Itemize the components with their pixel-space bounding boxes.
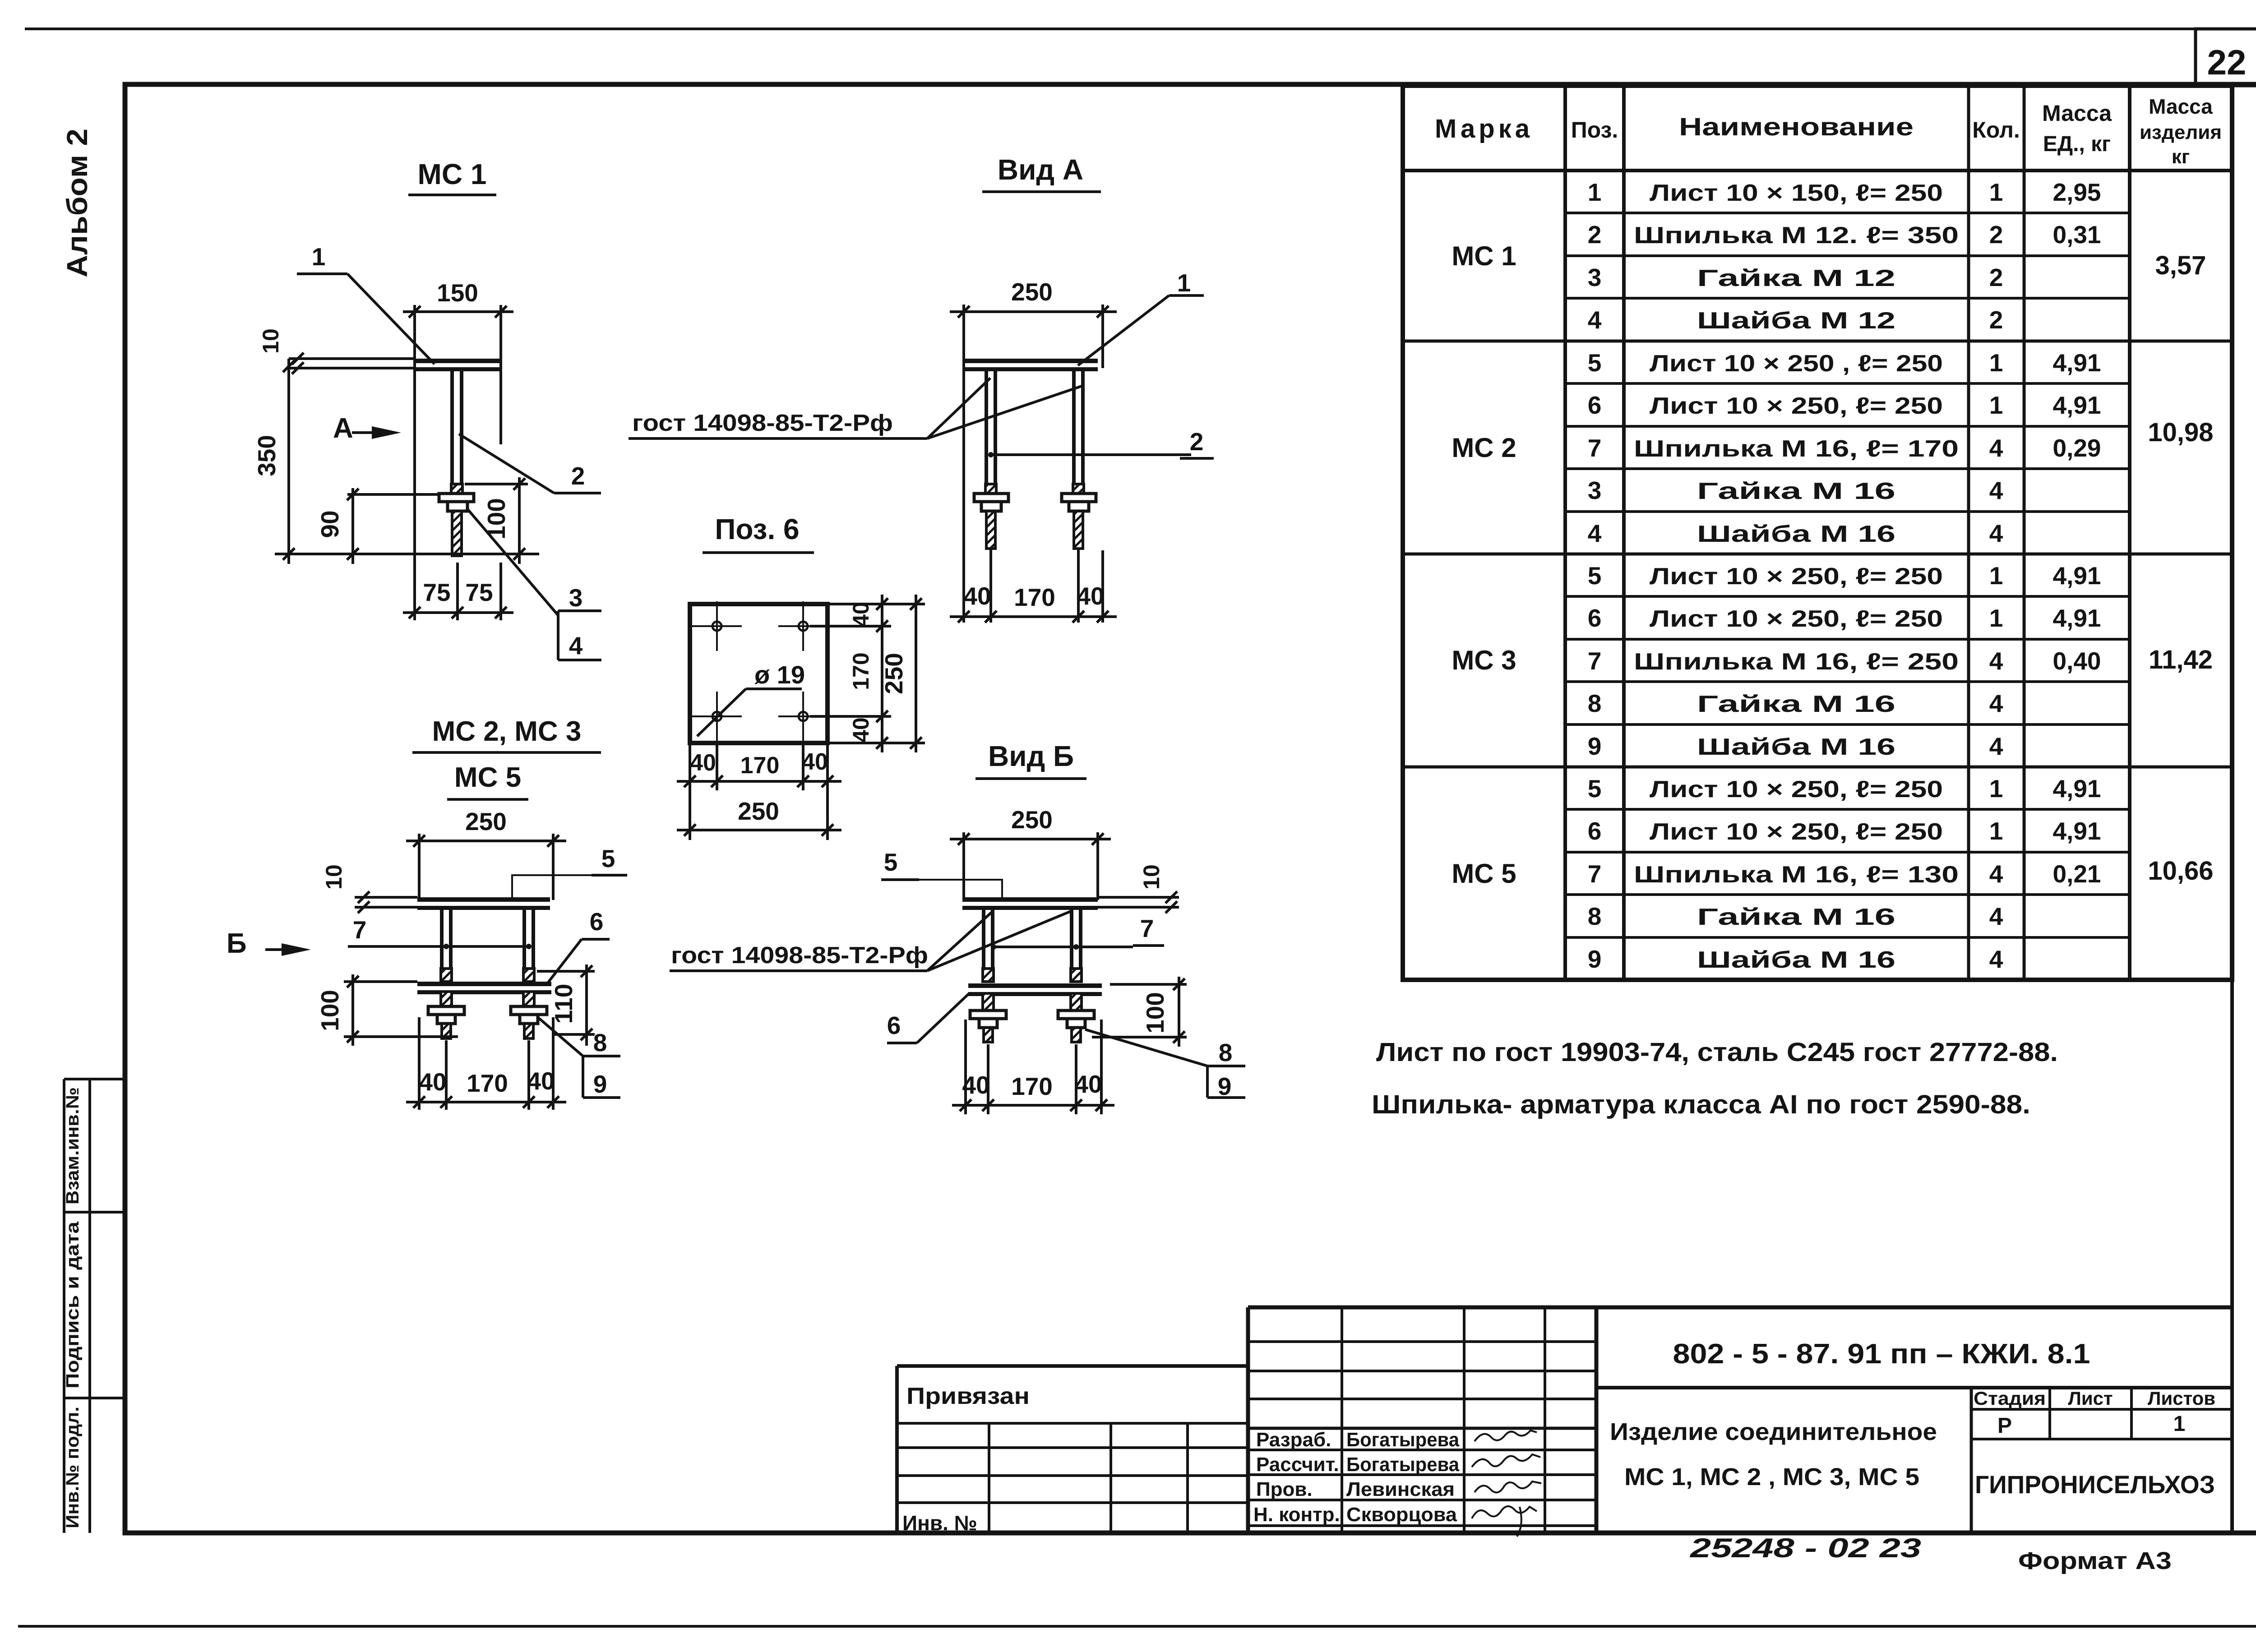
svg-text:Инв. №: Инв. №	[902, 1511, 977, 1535]
MC2 nuts poz.8	[437, 1015, 455, 1024]
Poz.6 bottom dims 40 170 40	[689, 745, 691, 840]
svg-text:Рассчит.: Рассчит.	[1256, 1454, 1339, 1476]
view A dim 250	[962, 305, 965, 623]
svg-text:1: 1	[1989, 817, 2003, 845]
svg-text:Гайка М 16: Гайка М 16	[1697, 691, 1895, 717]
svg-text:170: 170	[740, 752, 780, 779]
signature squiggles	[1475, 1431, 1537, 1441]
svg-text:4,91: 4,91	[2053, 349, 2101, 377]
svg-text:5: 5	[1588, 562, 1602, 590]
svg-text:Скворцова: Скворцова	[1346, 1504, 1457, 1526]
svg-text:гост 14098-85-Т2-Рф: гост 14098-85-Т2-Рф	[632, 410, 893, 436]
svg-text:350: 350	[253, 435, 281, 476]
svg-text:Шайба М 16: Шайба М 16	[1697, 947, 1895, 973]
view B washers poz.9	[970, 1011, 1006, 1019]
svg-text:Шпилька М 16, ℓ= 250: Шпилька М 16, ℓ= 250	[1634, 649, 1959, 675]
svg-text:изделия: изделия	[2140, 121, 2222, 143]
svg-text:МС 2, МС 3: МС 2, МС 3	[432, 716, 582, 747]
svg-text:Гайка М 12: Гайка М 12	[1697, 265, 1895, 291]
svg-text:8: 8	[1219, 1038, 1233, 1066]
view B top plate poz.5	[962, 897, 1098, 902]
svg-text:Пров.: Пров.	[1256, 1478, 1313, 1500]
svg-text:МС 1: МС 1	[418, 158, 487, 190]
svg-text:40: 40	[1077, 582, 1104, 610]
svg-text:8: 8	[1588, 689, 1602, 717]
svg-text:2: 2	[1588, 221, 1602, 249]
svg-text:9: 9	[1588, 945, 1602, 973]
svg-text:2: 2	[1989, 263, 2003, 291]
svg-text:4: 4	[1989, 476, 2003, 504]
svg-text:3: 3	[1588, 476, 1602, 504]
svg-text:Лист 10 × 250, ℓ= 250: Лист 10 × 250, ℓ= 250	[1650, 606, 1943, 632]
svg-text:Шайба М 12: Шайба М 12	[1697, 308, 1895, 334]
table header bottom line	[1403, 169, 2232, 172]
svg-text:2,95: 2,95	[2053, 178, 2101, 206]
view B rods below plate	[983, 993, 994, 1011]
svg-text:Шпилька М 16, ℓ= 170: Шпилька М 16, ℓ= 170	[1634, 436, 1959, 462]
svg-text:Лист 10 × 250, ℓ= 250: Лист 10 × 250, ℓ= 250	[1650, 563, 1943, 590]
svg-text:Масса: Масса	[2042, 101, 2112, 126]
svg-text:75: 75	[465, 578, 493, 606]
svg-text:Шпилька М 12. ℓ= 350: Шпилька М 12. ℓ= 350	[1634, 222, 1959, 249]
svg-text:5: 5	[1588, 775, 1602, 803]
view A dims 40 170 40	[989, 549, 992, 623]
MC1 nut poz.3	[448, 502, 467, 511]
svg-text:ГИПРОНИСЕЛЬХОЗ: ГИПРОНИСЕЛЬХОЗ	[1975, 1470, 2215, 1499]
svg-text:Альбом 2: Альбом 2	[61, 129, 93, 277]
svg-text:ø 19: ø 19	[754, 660, 805, 689]
svg-text:4: 4	[1588, 306, 1602, 334]
MC1 washer poz.4	[439, 494, 474, 502]
svg-text:0,21: 0,21	[2053, 860, 2101, 888]
svg-text:Вид Б: Вид Б	[988, 740, 1074, 772]
MC2 leader 8 9	[538, 1017, 583, 1056]
view A plate poz.1	[962, 359, 1098, 363]
svg-text:150: 150	[437, 279, 478, 307]
svg-text:40: 40	[963, 582, 991, 610]
svg-text:170: 170	[1014, 583, 1055, 611]
title block right section	[1595, 1307, 1599, 1533]
svg-text:5: 5	[601, 844, 615, 872]
svg-text:Шайба М 16: Шайба М 16	[1697, 521, 1895, 547]
svg-text:МС 1, МС 2 , МС 3, МС 5: МС 1, МС 2 , МС 3, МС 5	[1624, 1463, 1919, 1490]
svg-text:Шайба М 16: Шайба М 16	[1697, 734, 1895, 760]
MC2 bottom plate poz.6	[417, 982, 551, 986]
view B dim 100	[1178, 977, 1180, 1047]
svg-text:Формат А3: Формат А3	[2018, 1547, 2172, 1574]
svg-text:7: 7	[353, 916, 367, 944]
svg-text:4: 4	[569, 632, 583, 660]
svg-text:Богатырева: Богатырева	[1346, 1454, 1459, 1476]
view A nuts	[981, 502, 1001, 511]
svg-text:0,29: 0,29	[2053, 434, 2101, 462]
MC1 leader 3 4	[467, 508, 558, 615]
svg-text:Поз.: Поз.	[1571, 117, 1618, 143]
svg-text:Подпись и дата: Подпись и дата	[63, 1221, 83, 1389]
svg-text:Левинская: Левинская	[1346, 1478, 1455, 1500]
svg-text:6: 6	[590, 908, 604, 936]
svg-text:2: 2	[1190, 428, 1204, 456]
svg-text:4: 4	[1989, 860, 2003, 888]
svg-text:Гайка М 16: Гайка М 16	[1697, 904, 1895, 930]
svg-text:Поз. 6: Поз. 6	[715, 513, 799, 545]
MC1 plate poz.1	[415, 359, 501, 363]
view B nuts poz.8	[979, 1019, 997, 1028]
svg-text:8: 8	[593, 1029, 607, 1057]
MC1 dim 90	[351, 488, 354, 564]
MC2 washers poz.9	[428, 1006, 464, 1015]
svg-text:7: 7	[1588, 860, 1602, 888]
svg-text:Б: Б	[227, 928, 247, 959]
svg-text:40: 40	[1074, 1070, 1102, 1098]
svg-text:170: 170	[848, 652, 874, 690]
svg-text:Лист 10 × 250 , ℓ= 250: Лист 10 × 250 , ℓ= 250	[1650, 351, 1943, 377]
svg-text:90: 90	[316, 510, 344, 538]
svg-text:Лист 10 × 250, ℓ= 250: Лист 10 × 250, ℓ= 250	[1650, 776, 1943, 803]
svg-text:Лист 10 × 250, ℓ= 250: Лист 10 × 250, ℓ= 250	[1650, 393, 1943, 419]
svg-text:75: 75	[423, 578, 450, 606]
svg-text:40: 40	[848, 717, 874, 743]
svg-text:Лист 10 × 150, ℓ= 250: Лист 10 × 150, ℓ= 250	[1650, 180, 1943, 206]
MC1 dim 350	[287, 359, 290, 564]
svg-text:100: 100	[1141, 992, 1169, 1034]
svg-text:Лист по гост 19903-74, сталь С: Лист по гост 19903-74, сталь С245 гост 2…	[1376, 1038, 2058, 1067]
MC1 stud poz.2	[450, 368, 454, 484]
svg-text:10,66: 10,66	[2148, 856, 2213, 886]
svg-text:Изделие соединительное: Изделие соединительное	[1610, 1418, 1937, 1445]
svg-text:Марка: Марка	[1435, 114, 1533, 143]
svg-text:А: А	[333, 413, 353, 444]
svg-text:40: 40	[802, 749, 828, 775]
svg-text:Разраб.: Разраб.	[1256, 1429, 1331, 1451]
svg-text:3,57: 3,57	[2155, 251, 2206, 280]
svg-text:1: 1	[1989, 391, 2003, 419]
view B dim 250	[962, 832, 965, 900]
svg-text:1: 1	[1989, 349, 2003, 377]
svg-text:4: 4	[1588, 519, 1602, 547]
svg-text:Лист 10 × 250, ℓ= 250: Лист 10 × 250, ℓ= 250	[1650, 819, 1943, 845]
svg-text:9: 9	[1218, 1072, 1232, 1100]
svg-text:Вид А: Вид А	[998, 153, 1083, 186]
MC2 rods below plate	[441, 992, 452, 1006]
svg-text:6: 6	[887, 1011, 901, 1039]
view B dims 40 170 40	[964, 1020, 967, 1114]
svg-text:3: 3	[569, 584, 583, 612]
svg-text:1: 1	[312, 243, 326, 271]
MC2 dim 250	[418, 834, 421, 900]
Poz.6 right dims 40 170 40	[829, 603, 925, 605]
svg-text:3: 3	[1588, 263, 1602, 291]
svg-text:Шпилька- арматура класса АI: Шпилька- арматура класса АI по гост 2590…	[1372, 1090, 2030, 1119]
svg-text:1: 1	[1989, 775, 2003, 803]
MC1 threaded rod end	[452, 511, 462, 556]
svg-text:6: 6	[1588, 604, 1602, 632]
svg-text:7: 7	[1588, 434, 1602, 462]
svg-text:Масса: Масса	[2149, 95, 2213, 118]
svg-text:7: 7	[1588, 647, 1602, 675]
MC2 top plate poz.5	[417, 897, 550, 902]
svg-text:Богатырева: Богатырева	[1346, 1429, 1459, 1451]
table row lines	[1565, 212, 2130, 214]
svg-text:Гайка М 16: Гайка М 16	[1697, 478, 1895, 504]
svg-text:22: 22	[2207, 42, 2247, 82]
svg-text:7: 7	[1140, 914, 1154, 942]
svg-text:100: 100	[316, 990, 344, 1031]
svg-text:Привязан: Привязан	[906, 1383, 1030, 1409]
svg-text:4,91: 4,91	[2053, 604, 2101, 632]
svg-text:2: 2	[1989, 221, 2003, 249]
view A leader 2	[991, 453, 1191, 456]
Poz.6 plate outline	[690, 604, 828, 743]
svg-text:4,91: 4,91	[2053, 817, 2101, 845]
svg-text:40: 40	[690, 750, 716, 776]
svg-text:250: 250	[1011, 278, 1053, 306]
svg-text:4,91: 4,91	[2053, 391, 2101, 419]
svg-text:1: 1	[1989, 604, 2003, 632]
svg-text:10: 10	[258, 328, 283, 354]
svg-text:10: 10	[1139, 864, 1164, 890]
svg-text:0,31: 0,31	[2053, 221, 2101, 249]
svg-text:0,40: 0,40	[2053, 647, 2101, 675]
title block top line	[1248, 1306, 2232, 1310]
svg-text:гост 14098-85-Т2-Рф: гост 14098-85-Т2-Рф	[671, 942, 928, 969]
svg-text:1: 1	[1989, 562, 2003, 590]
svg-text:Лист: Лист	[2068, 1388, 2113, 1409]
svg-text:2: 2	[571, 462, 585, 490]
sidebar column	[63, 1079, 65, 1533]
svg-text:802 - 5 - 87. 91 пп – КЖИ.: 802 - 5 - 87. 91 пп – КЖИ. 8.1	[1673, 1338, 2090, 1370]
Poz.6 right dim 250	[915, 595, 917, 752]
svg-text:Листов: Листов	[2148, 1388, 2215, 1409]
svg-text:40: 40	[848, 602, 874, 627]
inner right margin line	[2230, 86, 2234, 1533]
top edge line	[25, 28, 2256, 30]
svg-text:8: 8	[1588, 902, 1602, 930]
svg-text:Наименование: Наименование	[1679, 112, 1914, 141]
svg-text:ЕД., кг: ЕД., кг	[2043, 132, 2111, 156]
view B dim 10	[1098, 896, 1179, 899]
svg-text:4: 4	[1989, 945, 2003, 973]
MC2 threaded rod ends	[442, 1024, 451, 1038]
svg-text:Стадия: Стадия	[1974, 1388, 2046, 1409]
MC1 dim 100	[518, 477, 521, 564]
svg-text:кг: кг	[2172, 146, 2190, 168]
Poz.6 holes	[712, 622, 721, 631]
svg-text:1: 1	[1177, 269, 1191, 297]
MC1 dim 10 plate thickness	[289, 357, 415, 360]
view A studs poz.2	[985, 368, 988, 484]
svg-text:40: 40	[962, 1071, 989, 1099]
svg-text:5: 5	[884, 848, 898, 876]
table block divider lines	[1403, 340, 2232, 343]
svg-text:Шпилька М 16, ℓ= 130: Шпилька М 16, ℓ= 130	[1634, 862, 1959, 888]
svg-text:4: 4	[1989, 519, 2003, 547]
svg-text:10: 10	[321, 864, 347, 890]
parts table outer border	[1403, 86, 2232, 980]
view B studs poz.7	[982, 907, 985, 969]
svg-text:40: 40	[419, 1068, 446, 1096]
svg-text:250: 250	[1011, 806, 1053, 834]
svg-text:МС 5: МС 5	[1452, 858, 1516, 889]
svg-text:МС 5: МС 5	[454, 762, 521, 793]
svg-text:1: 1	[1989, 178, 2003, 206]
MC1 bottom extension line	[275, 553, 539, 555]
MC1 dim 150	[413, 305, 416, 620]
svg-text:250: 250	[880, 653, 908, 694]
svg-text:25248 - 02 23: 25248 - 02 23	[1690, 1533, 1921, 1563]
svg-text:1: 1	[1588, 178, 1602, 206]
view A threaded rod ends	[986, 511, 995, 549]
MC2 dim 110	[585, 964, 588, 1046]
svg-text:4: 4	[1989, 732, 2003, 760]
MC2 studs poz.7	[440, 907, 444, 969]
svg-text:4: 4	[1989, 689, 2003, 717]
svg-text:Кол.: Кол.	[1972, 117, 2020, 143]
svg-text:МС 2: МС 2	[1452, 433, 1516, 463]
privyazan box	[897, 1364, 1248, 1368]
svg-text:40: 40	[527, 1067, 555, 1095]
MC1 dims 75 75	[456, 563, 459, 620]
svg-text:11,42: 11,42	[2149, 645, 2213, 674]
svg-text:1: 1	[2173, 1412, 2186, 1436]
svg-text:4: 4	[1989, 434, 2003, 462]
svg-text:4: 4	[1989, 647, 2003, 675]
Poz.6 bottom dim 250	[677, 829, 841, 831]
svg-text:6: 6	[1588, 817, 1602, 845]
svg-text:250: 250	[465, 808, 507, 835]
view A washers	[974, 494, 1008, 502]
bottom page edge line	[18, 1625, 2256, 1628]
view B leader 8 9	[1085, 1029, 1207, 1066]
svg-text:9: 9	[593, 1070, 607, 1098]
svg-text:4,91: 4,91	[2053, 562, 2101, 590]
svg-text:МС 3: МС 3	[1452, 645, 1516, 675]
svg-text:Н. контр.: Н. контр.	[1253, 1504, 1340, 1526]
svg-text:4,91: 4,91	[2053, 775, 2101, 803]
MC2 dim 10	[355, 896, 417, 899]
svg-text:4: 4	[1989, 902, 2003, 930]
svg-text:Р: Р	[1997, 1414, 2012, 1438]
table column lines	[1563, 86, 1567, 980]
svg-text:9: 9	[1588, 732, 1602, 760]
signature table	[1246, 1307, 1250, 1533]
svg-text:6: 6	[1588, 391, 1602, 419]
MC2 dims 40 170 40	[418, 1017, 421, 1110]
MC2 dim 100	[351, 974, 354, 1046]
svg-text:Взам.инв.№: Взам.инв.№	[63, 1087, 83, 1204]
svg-text:2: 2	[1989, 306, 2003, 334]
page number box 22	[2196, 29, 2256, 86]
svg-text:170: 170	[1011, 1072, 1053, 1100]
svg-text:5: 5	[1588, 349, 1602, 377]
svg-text:Инв.№ подл.: Инв.№ подл.	[63, 1407, 83, 1528]
view B bottom plate poz.6	[968, 983, 1102, 988]
svg-text:МС 1: МС 1	[1452, 241, 1516, 271]
svg-text:10,98: 10,98	[2148, 418, 2213, 447]
view B threaded rod ends	[984, 1028, 993, 1042]
svg-text:170: 170	[467, 1069, 508, 1097]
svg-text:250: 250	[738, 797, 779, 825]
